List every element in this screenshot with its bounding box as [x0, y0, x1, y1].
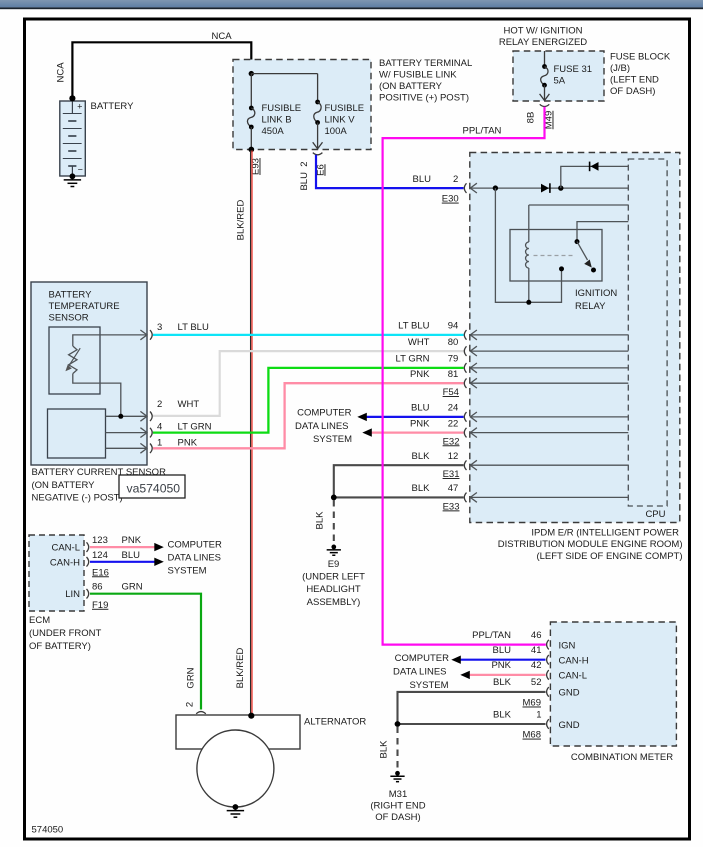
svg-text:RELAY: RELAY: [575, 301, 606, 312]
svg-text:E32: E32: [443, 436, 460, 447]
wire relay coil top to CPU: [529, 204, 629, 206]
svg-text:POSITIVE (+) POST): POSITIVE (+) POST): [379, 93, 469, 104]
svg-text:DATA LINES: DATA LINES: [168, 552, 222, 563]
svg-text:LT GRN: LT GRN: [396, 354, 430, 365]
connector E6 arc: [313, 153, 323, 155]
IPDM pin 47 connector and internal wire: [470, 496, 628, 498]
svg-text:W/ FUSIBLE LINK: W/ FUSIBLE LINK: [379, 70, 457, 81]
wire sensor pin 2 internal: [106, 415, 147, 417]
svg-text:NCA: NCA: [212, 31, 233, 42]
wire BLK meter GND1 to M31 junction: [398, 723, 546, 725]
svg-text:22: 22: [448, 418, 459, 429]
node E9 ground junction: [331, 495, 337, 501]
svg-text:12: 12: [448, 451, 459, 462]
wire sensor pin 4 internal: [106, 432, 147, 434]
ignition relay box: [510, 230, 602, 282]
svg-text:OF DASH): OF DASH): [375, 812, 420, 823]
wire fusible link V to connector E6: [317, 123, 319, 149]
IPDM pin 24 connector and internal wire: [470, 416, 628, 418]
svg-text:ECM: ECM: [29, 615, 50, 626]
svg-text:IPDM E/R (INTELLIGENT POWER: IPDM E/R (INTELLIGENT POWER: [531, 528, 679, 539]
svg-text:GND: GND: [559, 688, 580, 699]
connector M49 arc: [540, 104, 550, 106]
svg-text:IGN: IGN: [559, 640, 576, 651]
window title bar: [0, 0, 703, 7]
sensor pin 4 connector: [140, 428, 147, 438]
relay coil: [528, 205, 530, 242]
meter pin GND 52 connector: [547, 687, 549, 697]
node relay aux contact: [559, 266, 564, 271]
thermistor box: [49, 327, 100, 394]
svg-text:(LEFT SIDE OF ENGINE COMPT): (LEFT SIDE OF ENGINE COMPT): [536, 551, 682, 562]
svg-text:1: 1: [157, 437, 162, 448]
diode D1: [541, 184, 549, 193]
svg-text:81: 81: [448, 369, 459, 380]
svg-text:E33: E33: [443, 501, 460, 512]
svg-text:(LEFT END: (LEFT END: [610, 75, 659, 86]
svg-text:GRN: GRN: [122, 582, 143, 593]
svg-text:46: 46: [531, 630, 542, 641]
svg-text:BLU: BLU: [413, 174, 432, 185]
svg-text:2: 2: [453, 174, 458, 185]
wire sensor pin 1 internal: [106, 447, 147, 449]
svg-text:8B: 8B: [526, 112, 537, 124]
svg-text:CAN-H: CAN-H: [50, 557, 80, 568]
wire BLK meter GND52 to M31 junction: [398, 692, 546, 724]
svg-text:M68: M68: [523, 730, 541, 741]
va574050 watermark box: [119, 475, 185, 498]
battery temperature sensor box: [31, 282, 147, 465]
svg-text:SYSTEM: SYSTEM: [313, 434, 352, 445]
svg-text:5A: 5A: [554, 76, 566, 87]
svg-text:1: 1: [536, 709, 541, 720]
sensor pin 1 connector: [140, 443, 147, 453]
ECM pin 123 connector: [87, 542, 89, 552]
svg-text:BATTERY: BATTERY: [49, 289, 93, 300]
svg-text:80: 80: [448, 337, 459, 348]
svg-text:COMPUTER: COMPUTER: [395, 653, 450, 664]
svg-text:GRN: GRN: [186, 667, 197, 688]
svg-text:PPL/TAN: PPL/TAN: [463, 125, 502, 136]
node relay contact: [591, 268, 596, 273]
IPDM pin 79 connector and internal wire: [470, 367, 628, 369]
svg-text:PNK: PNK: [491, 660, 511, 671]
svg-text:BLK/RED: BLK/RED: [236, 200, 247, 241]
wire fuse block internal top: [544, 51, 546, 67]
node M31 ground junction: [395, 721, 401, 727]
wire GRN LIN to alternator: [90, 594, 201, 710]
ECM pin 86 connector: [87, 589, 89, 599]
wire PNK CAN-L to data lines arrow: [90, 546, 155, 548]
svg-text:BLU 2: BLU 2: [299, 161, 310, 190]
svg-text:BATTERY: BATTERY: [91, 101, 135, 112]
wire IPDM pin2 row to CPU: [470, 187, 628, 189]
svg-text:LT BLU: LT BLU: [398, 321, 429, 332]
svg-text:PNK: PNK: [178, 437, 198, 448]
node sensor pin2 junction: [118, 414, 123, 419]
ECM pin 124 connector: [87, 557, 89, 567]
svg-text:450A: 450A: [262, 126, 285, 137]
fusible link V 100A: [315, 100, 320, 105]
wire PPL/TAN fuse M49 to combination meter IGN: [383, 107, 546, 645]
svg-text:47: 47: [448, 483, 459, 494]
svg-text:42: 42: [531, 660, 542, 671]
combination meter box: [550, 622, 676, 746]
svg-text:BLK: BLK: [493, 709, 512, 720]
svg-text:24: 24: [448, 403, 459, 414]
svg-text:SENSOR: SENSOR: [49, 312, 89, 323]
wire BLU CAN-H to data lines arrow: [90, 561, 155, 563]
svg-text:BLK: BLK: [493, 677, 512, 688]
battery current sensor inner box: [48, 409, 106, 458]
wire fusible link internal top branch: [251, 73, 317, 75]
svg-text:DISTRIBUTION MODULE ENGINE ROO: DISTRIBUTION MODULE ENGINE ROOM): [498, 539, 683, 550]
meter pin IGN connector: [547, 640, 549, 650]
svg-text:NCA: NCA: [56, 62, 67, 83]
node fusible link top junction: [249, 71, 254, 76]
wire BLU IPDM pin 24 to data lines arrow: [367, 416, 464, 418]
meter pin CAN-L connector: [547, 670, 549, 680]
IPDM pin 80 connector and internal wire: [470, 350, 628, 352]
ground at alternator: [233, 804, 239, 810]
fusible link B 450A: [249, 106, 254, 111]
sensor pin 3 connector: [140, 330, 147, 340]
svg-text:124: 124: [92, 550, 108, 561]
svg-text:DATA LINES: DATA LINES: [393, 667, 447, 678]
svg-text:E16: E16: [92, 567, 109, 578]
CPU box: [628, 159, 667, 506]
svg-text:FUSIBLE: FUSIBLE: [325, 103, 365, 114]
svg-text:E31: E31: [443, 469, 460, 480]
svg-text:ALTERNATOR: ALTERNATOR: [304, 716, 366, 727]
svg-text:CAN-L: CAN-L: [51, 543, 80, 554]
wire LT BLU sensor to IPDM pin 94: [153, 334, 464, 336]
svg-text:BLU: BLU: [493, 645, 512, 656]
svg-text:BLU: BLU: [122, 550, 141, 561]
thermistor RT1: [69, 346, 77, 374]
alternator body: [176, 715, 300, 749]
svg-text:3: 3: [157, 322, 162, 333]
wire relay coil feed from junction A: [495, 188, 561, 302]
svg-text:BLK: BLK: [315, 511, 326, 530]
svg-text:E9: E9: [328, 559, 340, 570]
svg-text:NEGATIVE (-) POST): NEGATIVE (-) POST): [32, 493, 123, 504]
wire BLK dashed to ground M31: [396, 727, 398, 769]
svg-text:RELAY ENERGIZED: RELAY ENERGIZED: [499, 37, 587, 48]
svg-text:LT BLU: LT BLU: [178, 322, 209, 333]
svg-text:F54: F54: [443, 387, 459, 398]
svg-text:(ON BATTERY: (ON BATTERY: [32, 480, 96, 491]
svg-text:(J/B): (J/B): [610, 63, 630, 74]
node relay coil bottom junction: [526, 300, 531, 305]
sensor pin 2 connector: [140, 411, 147, 421]
svg-text:LT GRN: LT GRN: [178, 421, 212, 432]
ground E9: [331, 545, 336, 550]
wire PNK sensor to IPDM pin 81: [153, 383, 464, 448]
wire WHT sensor to IPDM pin 80: [153, 351, 464, 416]
svg-text:WHT: WHT: [408, 337, 430, 348]
wire fuse 31 to connector M49: [544, 85, 546, 100]
svg-text:COMBINATION METER: COMBINATION METER: [571, 752, 673, 763]
ground at battery negative: [70, 173, 76, 179]
svg-text:FUSE 31: FUSE 31: [554, 64, 593, 75]
svg-text:SYSTEM: SYSTEM: [168, 565, 207, 576]
svg-text:TEMPERATURE: TEMPERATURE: [49, 301, 120, 312]
node BLK/RED at alternator: [248, 713, 254, 719]
diode D2: [591, 162, 599, 171]
wire thermistor bottom to junction: [73, 374, 121, 417]
wire sensor pin 3 internal: [73, 335, 147, 346]
svg-text:(UNDER LEFT: (UNDER LEFT: [302, 572, 365, 583]
wire diode D2 branch: [561, 166, 629, 188]
svg-text:PNK: PNK: [410, 369, 430, 380]
svg-text:BLK/RED: BLK/RED: [235, 648, 246, 689]
svg-text:100A: 100A: [325, 126, 348, 137]
svg-text:ASSEMBLY): ASSEMBLY): [307, 597, 361, 608]
svg-text:LINK B: LINK B: [262, 115, 292, 126]
node IPDM junction B: [558, 185, 563, 190]
svg-text:BLK: BLK: [412, 451, 431, 462]
IPDM pin 12 connector and internal wire: [470, 464, 628, 466]
svg-text:+: +: [77, 102, 82, 112]
svg-text:IGNITION: IGNITION: [575, 288, 617, 299]
svg-text:va574050: va574050: [127, 482, 181, 496]
wire BLU meter CAN-H to data lines arrow: [461, 659, 546, 661]
wire BLK IPDM pin 12 to ground junction: [334, 465, 464, 497]
fuse block box (J/B): [513, 51, 604, 101]
wire BLK IPDM pin 47 to ground junction: [334, 496, 464, 498]
IPDM pin 22 connector and internal wire: [470, 432, 628, 434]
svg-text:79: 79: [448, 354, 459, 365]
svg-text:SYSTEM: SYSTEM: [409, 680, 448, 691]
node fusible link box bottom junction E93: [248, 147, 254, 153]
ECM box: [29, 535, 84, 611]
svg-text:52: 52: [531, 677, 542, 688]
svg-text:(UNDER FRONT: (UNDER FRONT: [29, 628, 101, 639]
wire PNK IPDM pin 22 to data lines arrow: [372, 432, 464, 434]
svg-text:BLK: BLK: [412, 483, 431, 494]
fuse 31 5A: [542, 64, 547, 69]
svg-text:94: 94: [448, 321, 459, 332]
alternator connector arc (GRN pin 2): [196, 712, 206, 714]
svg-text:PNK: PNK: [410, 418, 430, 429]
svg-text:OF BATTERY): OF BATTERY): [29, 641, 91, 652]
svg-text:LIN: LIN: [65, 589, 80, 600]
wire PNK meter CAN-L to data lines arrow: [470, 674, 546, 676]
fusible link box (battery terminal): [233, 60, 371, 150]
wire LT GRN sensor to IPDM pin 79: [153, 368, 464, 433]
svg-text:COMPUTER: COMPUTER: [297, 408, 352, 419]
svg-text:BLU: BLU: [411, 403, 430, 414]
svg-text:PPL/TAN: PPL/TAN: [472, 630, 511, 641]
wire fusible link B to box bottom: [250, 127, 252, 150]
relay switch arm: [575, 239, 580, 244]
battery B1: [60, 101, 86, 176]
wire NCA battery positive to fusible link box: [72, 42, 251, 98]
wire relay switch common from CPU: [577, 222, 628, 242]
wire BLU from E6 to IPDM E30: [316, 155, 464, 188]
svg-text:M31: M31: [389, 789, 407, 800]
meter pin GND 1 connector: [547, 719, 549, 729]
svg-text:BLK: BLK: [379, 740, 390, 759]
IPDM pin 81 connector and internal wire: [470, 382, 628, 384]
svg-text:DATA LINES: DATA LINES: [295, 421, 349, 432]
svg-text:CPU: CPU: [645, 509, 665, 520]
wire BLK/RED vertical (fusible link to alternator): [250, 151, 252, 715]
svg-text:E6: E6: [316, 164, 327, 176]
svg-text:CAN-L: CAN-L: [559, 671, 588, 682]
svg-text:4: 4: [157, 421, 162, 432]
node IPDM junction A: [493, 185, 498, 190]
meter pin CAN-H connector: [547, 655, 549, 665]
IPDM pin 2 connector E30: [464, 183, 466, 193]
IPDM E/R box: [470, 153, 680, 523]
svg-text:PNK: PNK: [122, 535, 142, 546]
svg-text:HOT W/ IGNITION: HOT W/ IGNITION: [504, 25, 583, 36]
svg-text:123: 123: [92, 535, 108, 546]
svg-text:CAN-H: CAN-H: [559, 656, 589, 667]
svg-text:WHT: WHT: [178, 399, 200, 410]
wire BLK dashed to ground E9: [333, 500, 335, 542]
relay mechanical dashed link: [534, 255, 575, 257]
svg-text:M69: M69: [523, 698, 541, 709]
svg-text:41: 41: [531, 645, 542, 656]
svg-text:574050: 574050: [32, 825, 64, 836]
svg-text:HEADLIGHT: HEADLIGHT: [306, 584, 361, 595]
svg-text:F19: F19: [92, 600, 108, 611]
svg-text:FUSIBLE: FUSIBLE: [262, 103, 302, 114]
IPDM pin 94 connector and internal wire: [470, 334, 628, 336]
ground M31: [395, 771, 400, 776]
svg-text:LINK V: LINK V: [325, 115, 356, 126]
svg-text:(ON BATTERY: (ON BATTERY: [379, 81, 443, 92]
svg-text:E30: E30: [442, 194, 459, 205]
svg-text:86: 86: [92, 582, 103, 593]
svg-text:−: −: [78, 165, 83, 175]
svg-text:2: 2: [185, 702, 196, 707]
svg-text:COMPUTER: COMPUTER: [168, 539, 223, 550]
node battery positive junction: [69, 95, 75, 101]
svg-text:BATTERY TERMINAL: BATTERY TERMINAL: [379, 58, 472, 69]
svg-text:OF DASH): OF DASH): [610, 86, 655, 97]
svg-text:(RIGHT END: (RIGHT END: [370, 801, 425, 812]
svg-text:FUSE BLOCK: FUSE BLOCK: [610, 52, 671, 63]
svg-text:2: 2: [157, 399, 162, 410]
svg-text:GND: GND: [559, 720, 580, 731]
